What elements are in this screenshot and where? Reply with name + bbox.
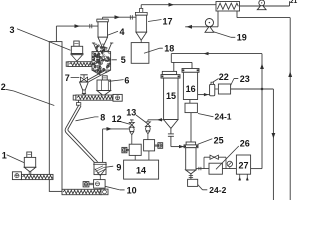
injector 12 — [130, 119, 134, 121]
seal pot 24-2 — [188, 179, 198, 186]
svg-text:22: 22 — [219, 72, 229, 82]
stripper vessel 25 — [186, 142, 196, 145]
label 23 leader — [231, 79, 234, 86]
feed line into injector 13 — [148, 119, 164, 121]
svg-text:15: 15 — [166, 91, 176, 101]
pipe column2 to cyclone4 — [55, 26, 57, 41]
svg-text:25: 25 — [214, 135, 224, 145]
cartridge 22 — [210, 84, 215, 96]
label 24-1 leader — [198, 114, 214, 117]
quench vessel 9 — [94, 162, 106, 174]
drop 24-1 to vessel 25 — [190, 113, 192, 142]
pump between 26 and 27 — [227, 161, 232, 166]
overhead 15 to 16 — [173, 62, 175, 71]
HX cooling line down right edge — [236, 11, 238, 18]
svg-text:19: 19 — [237, 33, 247, 43]
motor of device 10 — [89, 182, 94, 184]
svg-text:10: 10 — [127, 185, 137, 195]
flange on cyclone17 inlet — [129, 15, 131, 19]
svg-text:26: 26 — [240, 138, 250, 148]
bypass with valve — [203, 157, 205, 168]
line HX to blower 21 and vent — [240, 5, 290, 7]
scrubber column 15 — [162, 71, 176, 74]
feed stubs below 27 — [239, 174, 241, 180]
inclined pipe 8 — [65, 105, 95, 163]
screw conveyor below 6 and 7 — [76, 95, 113, 100]
svg-text:17: 17 — [163, 16, 173, 26]
label 17 leader — [148, 20, 162, 22]
label 1 leader — [7, 155, 25, 163]
svg-text:24-2: 24-2 — [209, 185, 226, 195]
conveyor drive motor — [113, 94, 122, 101]
slurry tank A under 12 — [129, 144, 141, 155]
cyclone 17 gas outlet — [140, 5, 142, 9]
flange on cyclone4 inlet — [89, 24, 91, 28]
riser 27 to 16 — [261, 54, 263, 169]
svg-text:9: 9 — [116, 162, 121, 172]
svg-text:6: 6 — [124, 76, 129, 86]
label 4 leader — [108, 31, 119, 35]
cyclone separator 17 — [140, 8, 143, 12]
gate valve 7 — [80, 74, 87, 76]
label 9 leader — [105, 166, 114, 167]
svg-text:7: 7 — [65, 73, 70, 83]
feeder 1 conveyor motor — [12, 172, 21, 180]
reactor column 2 — [49, 42, 62, 192]
label 5 — [112, 59, 117, 61]
gas return line into 16 — [170, 54, 172, 63]
svg-text:24-1: 24-1 — [215, 112, 232, 122]
screw feeder 6 — [102, 76, 107, 80]
drain 15 to 25 — [171, 146, 186, 148]
vessel 5 bottom cone — [92, 70, 101, 75]
blower 19 — [205, 26, 214, 32]
line 23 to bottom edge — [231, 88, 274, 90]
label 7 leader — [71, 77, 80, 79]
svg-text:5: 5 — [121, 55, 126, 65]
label 10 leader — [105, 186, 120, 190]
slurry tank B under 13 — [144, 140, 155, 151]
svg-text:1: 1 — [2, 150, 7, 160]
screw feeder 1 — [27, 152, 32, 157]
svg-text:27: 27 — [238, 160, 248, 170]
svg-text:8: 8 — [100, 112, 105, 122]
hopper below valve 7 — [80, 82, 89, 90]
feeder 1 conveyor — [21, 174, 53, 179]
tank 26 — [209, 163, 222, 174]
svg-text:3: 3 — [10, 25, 15, 35]
label 3 leader — [17, 29, 71, 51]
scrubber column 16 — [182, 69, 199, 73]
cyclone separator 4 — [97, 18, 109, 20]
label 13 leader — [136, 115, 146, 123]
svg-text:16: 16 — [186, 84, 196, 94]
label 22 leader — [213, 79, 219, 83]
svg-text:14: 14 — [136, 165, 146, 175]
heat exchanger — [216, 2, 240, 12]
svg-text:23: 23 — [240, 74, 250, 84]
riser from vessel 9 — [102, 129, 104, 163]
svg-text:2: 2 — [1, 82, 6, 92]
label 18 leader — [144, 48, 160, 53]
line 16 to 22 — [198, 94, 210, 96]
blower 21 — [257, 4, 266, 9]
svg-text:12: 12 — [112, 114, 122, 124]
reactor 27 — [236, 155, 250, 174]
mixing tank 14 — [124, 160, 159, 179]
injector 13 — [147, 120, 149, 122]
seal pot 24-1 — [185, 103, 197, 112]
label 19 leader — [213, 32, 231, 38]
label 24-2 leader — [198, 185, 203, 190]
downpipe from conveyor — [78, 100, 80, 102]
line 25 to 26 to 27 — [196, 168, 236, 170]
svg-text:18: 18 — [164, 43, 174, 53]
screw conveyor of feeder 3 — [68, 62, 92, 67]
inclined discharge pipe 5 to 7 — [88, 71, 104, 80]
label 26 leader — [216, 146, 239, 169]
bottom screw conveyor — [99, 188, 101, 189]
dust bin 18 — [131, 43, 149, 64]
feed funnel of vessel 5 — [92, 42, 95, 44]
svg-text:13: 13 — [126, 108, 136, 118]
label 2 leader — [6, 89, 55, 105]
label 25 leader — [198, 139, 213, 145]
screw feeder 3 — [74, 41, 79, 46]
analyzer box 23 — [218, 84, 230, 94]
outlet 27 to riser — [251, 168, 262, 170]
line HX to blower 19 — [217, 11, 219, 27]
rotary discharger 10 — [99, 176, 101, 180]
svg-text:21: 21 — [290, 0, 298, 5]
label 8 leader — [76, 117, 99, 121]
svg-text:4: 4 — [120, 27, 125, 37]
label 12 leader — [120, 122, 130, 125]
label 6 leader — [109, 80, 124, 82]
cyclone 4 gas outlet pipe — [102, 17, 104, 19]
